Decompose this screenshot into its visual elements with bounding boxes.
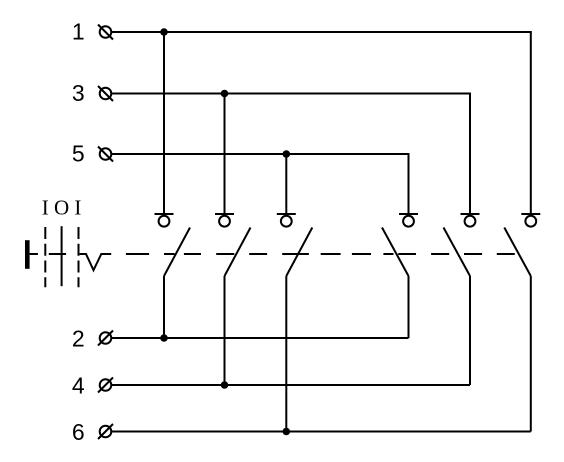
- actuator position line O (middle, solid): [61, 226, 63, 286]
- svg-text:O: O: [54, 195, 69, 219]
- wire net 1 horizontal: [111, 32, 531, 213]
- actuator position line I (right, dashed): [78, 227, 80, 287]
- mechanical linkage dashed line: [126, 253, 515, 255]
- switch pole 2 blade: [225, 228, 251, 277]
- wire net 2 horizontal: [111, 337, 409, 339]
- switch pole contact 6 fixed: [521, 214, 540, 227]
- wire net 3 drop to contact 2: [224, 94, 226, 214]
- junction dot net 1: [160, 28, 168, 36]
- switch pole 4 blade: [382, 228, 409, 277]
- terminal 6: [98, 424, 113, 439]
- switch pole contact 3 fixed: [277, 214, 296, 227]
- svg-text:6: 6: [72, 419, 85, 445]
- wire net 3 horizontal: [111, 94, 470, 214]
- junction dot net 2: [160, 334, 168, 342]
- switch pole contact 4 fixed: [399, 214, 418, 227]
- wire contact 2 to net 4: [224, 276, 226, 385]
- switch pole contact 1 fixed: [155, 214, 174, 227]
- svg-text:1: 1: [72, 19, 85, 45]
- wire contact 1 to net 2: [163, 276, 165, 338]
- switch pole 1 blade: [164, 228, 190, 277]
- switch pole 3 blade: [286, 228, 312, 277]
- terminal 2: [98, 331, 113, 346]
- wire net 6 horizontal: [111, 431, 531, 433]
- switch pole contact 5 fixed: [461, 214, 480, 227]
- svg-text:I: I: [74, 195, 81, 219]
- junction dot net 6: [283, 428, 291, 436]
- terminal 4: [98, 378, 113, 393]
- wire net 5 drop to contact 3: [285, 154, 287, 213]
- svg-text:3: 3: [72, 80, 85, 106]
- junction dot net 5: [283, 150, 291, 158]
- wire contact 5 to net 4: [469, 276, 471, 385]
- actuator detent notch: [80, 254, 112, 270]
- actuator handle bar: [25, 240, 30, 269]
- switch pole contact 2 fixed: [215, 214, 234, 227]
- actuator shaft segment 1: [30, 253, 38, 255]
- wire contact 6 to net 6: [530, 276, 532, 432]
- terminal 3: [98, 86, 113, 101]
- svg-text:4: 4: [72, 373, 85, 399]
- actuator shaft segment 2: [49, 253, 66, 255]
- wire net 4 horizontal: [111, 384, 470, 386]
- junction dot net 3: [221, 90, 229, 98]
- switch pole 6 blade: [504, 228, 531, 277]
- wire net 5 horizontal: [111, 154, 409, 213]
- switch pole 5 blade: [444, 228, 471, 277]
- wire contact 3 to net 6: [285, 276, 287, 432]
- terminal 5: [98, 147, 113, 162]
- wire net 1 drop to contact 1: [163, 32, 165, 213]
- actuator position line I (left, dashed): [44, 227, 46, 287]
- svg-text:2: 2: [72, 326, 85, 352]
- junction dot net 4: [221, 381, 229, 389]
- terminal 1: [98, 25, 113, 40]
- svg-text:I: I: [42, 195, 49, 219]
- svg-text:5: 5: [72, 141, 85, 167]
- wire contact 4 to net 2: [408, 276, 410, 338]
